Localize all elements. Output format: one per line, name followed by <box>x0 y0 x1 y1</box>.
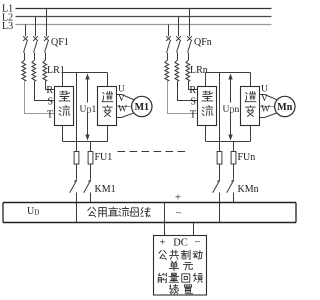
svg-text:FUn: FUn <box>238 152 256 163</box>
reactor LR1 coil 3 <box>43 60 47 81</box>
wire pole2 to reactor drive 1 <box>34 53 36 61</box>
wire bus + to braking unit <box>164 203 166 236</box>
voltage arrow U_Dn <box>230 78 232 137</box>
contactor KM1 pole <box>76 165 78 179</box>
svg-text:+: + <box>175 192 181 204</box>
wire U slant <box>265 95 278 101</box>
wire pole1 to reactor drive 1 <box>24 53 26 61</box>
voltage arrow U_D1 <box>87 78 89 137</box>
reactor LRn coil 2 <box>175 60 179 81</box>
rectifier block drive 1 <box>55 87 74 126</box>
wire rectifier top stub <box>205 73 207 87</box>
breaker QF1 pole 1 blade <box>24 41 28 52</box>
svg-text:R: R <box>46 85 53 96</box>
reactor LR1 coil 1 <box>22 60 26 81</box>
breaker QFn pole 3 contact <box>187 36 192 41</box>
wire to S input drive 1 <box>35 81 55 101</box>
reactor LRn coil 1 <box>165 60 169 81</box>
wire W to motor <box>117 117 122 119</box>
svg-text:T: T <box>190 110 196 121</box>
text bian (convert) <box>103 106 113 117</box>
text liu (flow) <box>202 106 213 116</box>
fuse FUn <box>219 151 221 165</box>
wire rectifier top stub <box>62 73 64 87</box>
fuse FU1 <box>90 151 92 165</box>
svg-text:QFn: QFn <box>194 37 212 48</box>
motor Mn <box>275 96 295 116</box>
svg-text:U: U <box>261 85 268 95</box>
braking unit block <box>154 236 207 296</box>
breaker QF1 pole 2 blade <box>34 41 38 52</box>
common DC bus bottom line (-) <box>3 222 296 224</box>
svg-text:DC: DC <box>173 238 188 249</box>
wire to T input drive 1 <box>25 81 55 114</box>
breaker QFn pole 1 contact <box>166 36 171 41</box>
svg-text:R: R <box>189 85 196 96</box>
fuse FUn <box>233 151 235 165</box>
svg-text:KM1: KM1 <box>95 184 116 195</box>
reactor LR1 coil 2 <box>32 60 36 81</box>
wire + drop to FU1 <box>76 73 78 151</box>
wire phase2 tap from L2 drive 1 <box>35 17 37 37</box>
wire pole3 to reactor drive 1 <box>45 53 47 61</box>
wire inverter bottom stub <box>107 126 109 142</box>
text ni (reverse) <box>102 92 113 102</box>
svg-text:UD: UD <box>27 206 39 217</box>
breaker QFn pole 2 contact <box>176 36 181 41</box>
svg-text:−: − <box>175 208 181 220</box>
svg-text:UD1: UD1 <box>80 105 97 115</box>
wire U slant <box>122 95 135 101</box>
svg-text:KMn: KMn <box>238 184 259 195</box>
svg-text:W: W <box>261 105 270 115</box>
inverter block drive n <box>241 87 260 126</box>
wire pole3 to reactor drive n <box>188 53 190 61</box>
text nengliang huikui (energy feedback) <box>158 273 166 282</box>
wire W to motor <box>260 117 265 119</box>
wire phase2 tap from L2 drive n <box>178 17 180 37</box>
text zheng (rectify) <box>59 91 70 101</box>
wire DC link + rail drive 1 <box>63 72 108 74</box>
wire U to motor Mn <box>260 94 265 96</box>
wire KMn right pole to bus top <box>233 193 235 203</box>
breaker QF1 pole 3 blade <box>45 41 49 52</box>
svg-text:T: T <box>47 110 53 121</box>
wire L3 rail <box>16 24 272 26</box>
bus left end cap <box>2 203 4 223</box>
text danyuan (unit) <box>169 261 178 271</box>
wire phase3 tap from L1 drive n <box>189 9 191 37</box>
text liu (flow) <box>59 106 70 116</box>
breaker QF1 pole 1 contact <box>23 36 28 41</box>
svg-text:S: S <box>47 97 53 108</box>
wire phase3 tap from L1 drive 1 <box>46 9 48 37</box>
wire - drop to FU1 <box>90 142 92 151</box>
wire KM1 left pole to bus bottom <box>76 193 78 223</box>
svg-text:W: W <box>118 105 127 115</box>
svg-text:UDn: UDn <box>223 105 240 115</box>
breaker QFn pole 1 blade <box>167 41 171 52</box>
breaker QF1 pole 2 contact <box>33 36 38 41</box>
wire to R input drive 1 <box>46 81 55 90</box>
wire W slant <box>265 113 278 118</box>
svg-text:M1: M1 <box>135 102 149 113</box>
text zhuangzhi (device) <box>169 285 178 295</box>
wire pole1 to reactor drive n <box>167 53 169 61</box>
svg-text:S: S <box>190 97 196 108</box>
svg-text:QF1: QF1 <box>51 37 69 48</box>
bus right end cap <box>295 203 297 223</box>
wire rectifier bottom stub <box>62 126 64 142</box>
svg-text:+: + <box>159 237 165 249</box>
wire V to motor <box>260 106 275 108</box>
motor M1 <box>132 96 152 116</box>
wire inverter top stub <box>250 73 252 87</box>
text bian (convert) <box>246 106 256 117</box>
wire V to motor <box>117 106 132 108</box>
svg-text:Mn: Mn <box>277 102 292 113</box>
text gonggong zhidong (common braking) <box>159 250 167 259</box>
wire DC link - rail drive n <box>206 141 251 143</box>
wire to S input drive n <box>178 81 198 101</box>
reactor LRn coil 3 <box>186 60 190 81</box>
wire W slant <box>122 113 135 118</box>
svg-text:V: V <box>118 94 125 104</box>
text zheng (rectify) <box>202 91 213 101</box>
wire to R input drive n <box>189 81 198 90</box>
wire inverter top stub <box>107 73 109 87</box>
wire phase1 tap from L3 drive n <box>168 25 170 37</box>
wire - drop to FUn <box>233 142 235 151</box>
fuse FU1 <box>76 151 78 165</box>
breaker QFn pole 3 blade <box>188 41 192 52</box>
svg-text:FU1: FU1 <box>95 152 113 163</box>
wire pole2 to reactor drive n <box>177 53 179 61</box>
wire phase1 tap from L3 drive 1 <box>25 25 27 37</box>
wire KMn left pole to bus bottom <box>219 193 221 223</box>
common DC bus top line (+) <box>3 202 296 204</box>
wire inverter bottom stub <box>250 126 252 142</box>
inverter block drive 1 <box>98 87 117 126</box>
contactor KMn pole <box>233 165 235 179</box>
wire rectifier bottom stub <box>205 126 207 142</box>
contactor KMn pole <box>219 165 221 179</box>
svg-text:V: V <box>261 94 268 104</box>
wire L2 rail <box>16 16 272 18</box>
svg-text:U: U <box>118 85 125 95</box>
rectifier block drive n <box>198 87 217 126</box>
breaker QFn pole 2 blade <box>177 41 181 52</box>
wire DC link + rail drive n <box>206 72 251 74</box>
svg-text:−: − <box>194 237 200 249</box>
wire to T input drive n <box>168 81 198 114</box>
wire DC link - rail drive 1 <box>63 141 108 143</box>
wire KM1 right pole to bus top <box>90 193 92 203</box>
text gongyong zhiliu muxian (common DC bus) <box>88 207 96 217</box>
svg-text:L3: L3 <box>2 21 13 32</box>
wire U to motor M1 <box>117 94 122 96</box>
contactor KM1 pole <box>90 165 92 179</box>
wire + drop to FUn <box>219 73 221 151</box>
wire bus - to braking unit <box>193 223 195 236</box>
wire L1 rail <box>16 8 272 10</box>
breaker QF1 pole 3 contact <box>44 36 49 41</box>
text ni (reverse) <box>245 92 256 102</box>
dashed continuation line <box>118 151 190 153</box>
